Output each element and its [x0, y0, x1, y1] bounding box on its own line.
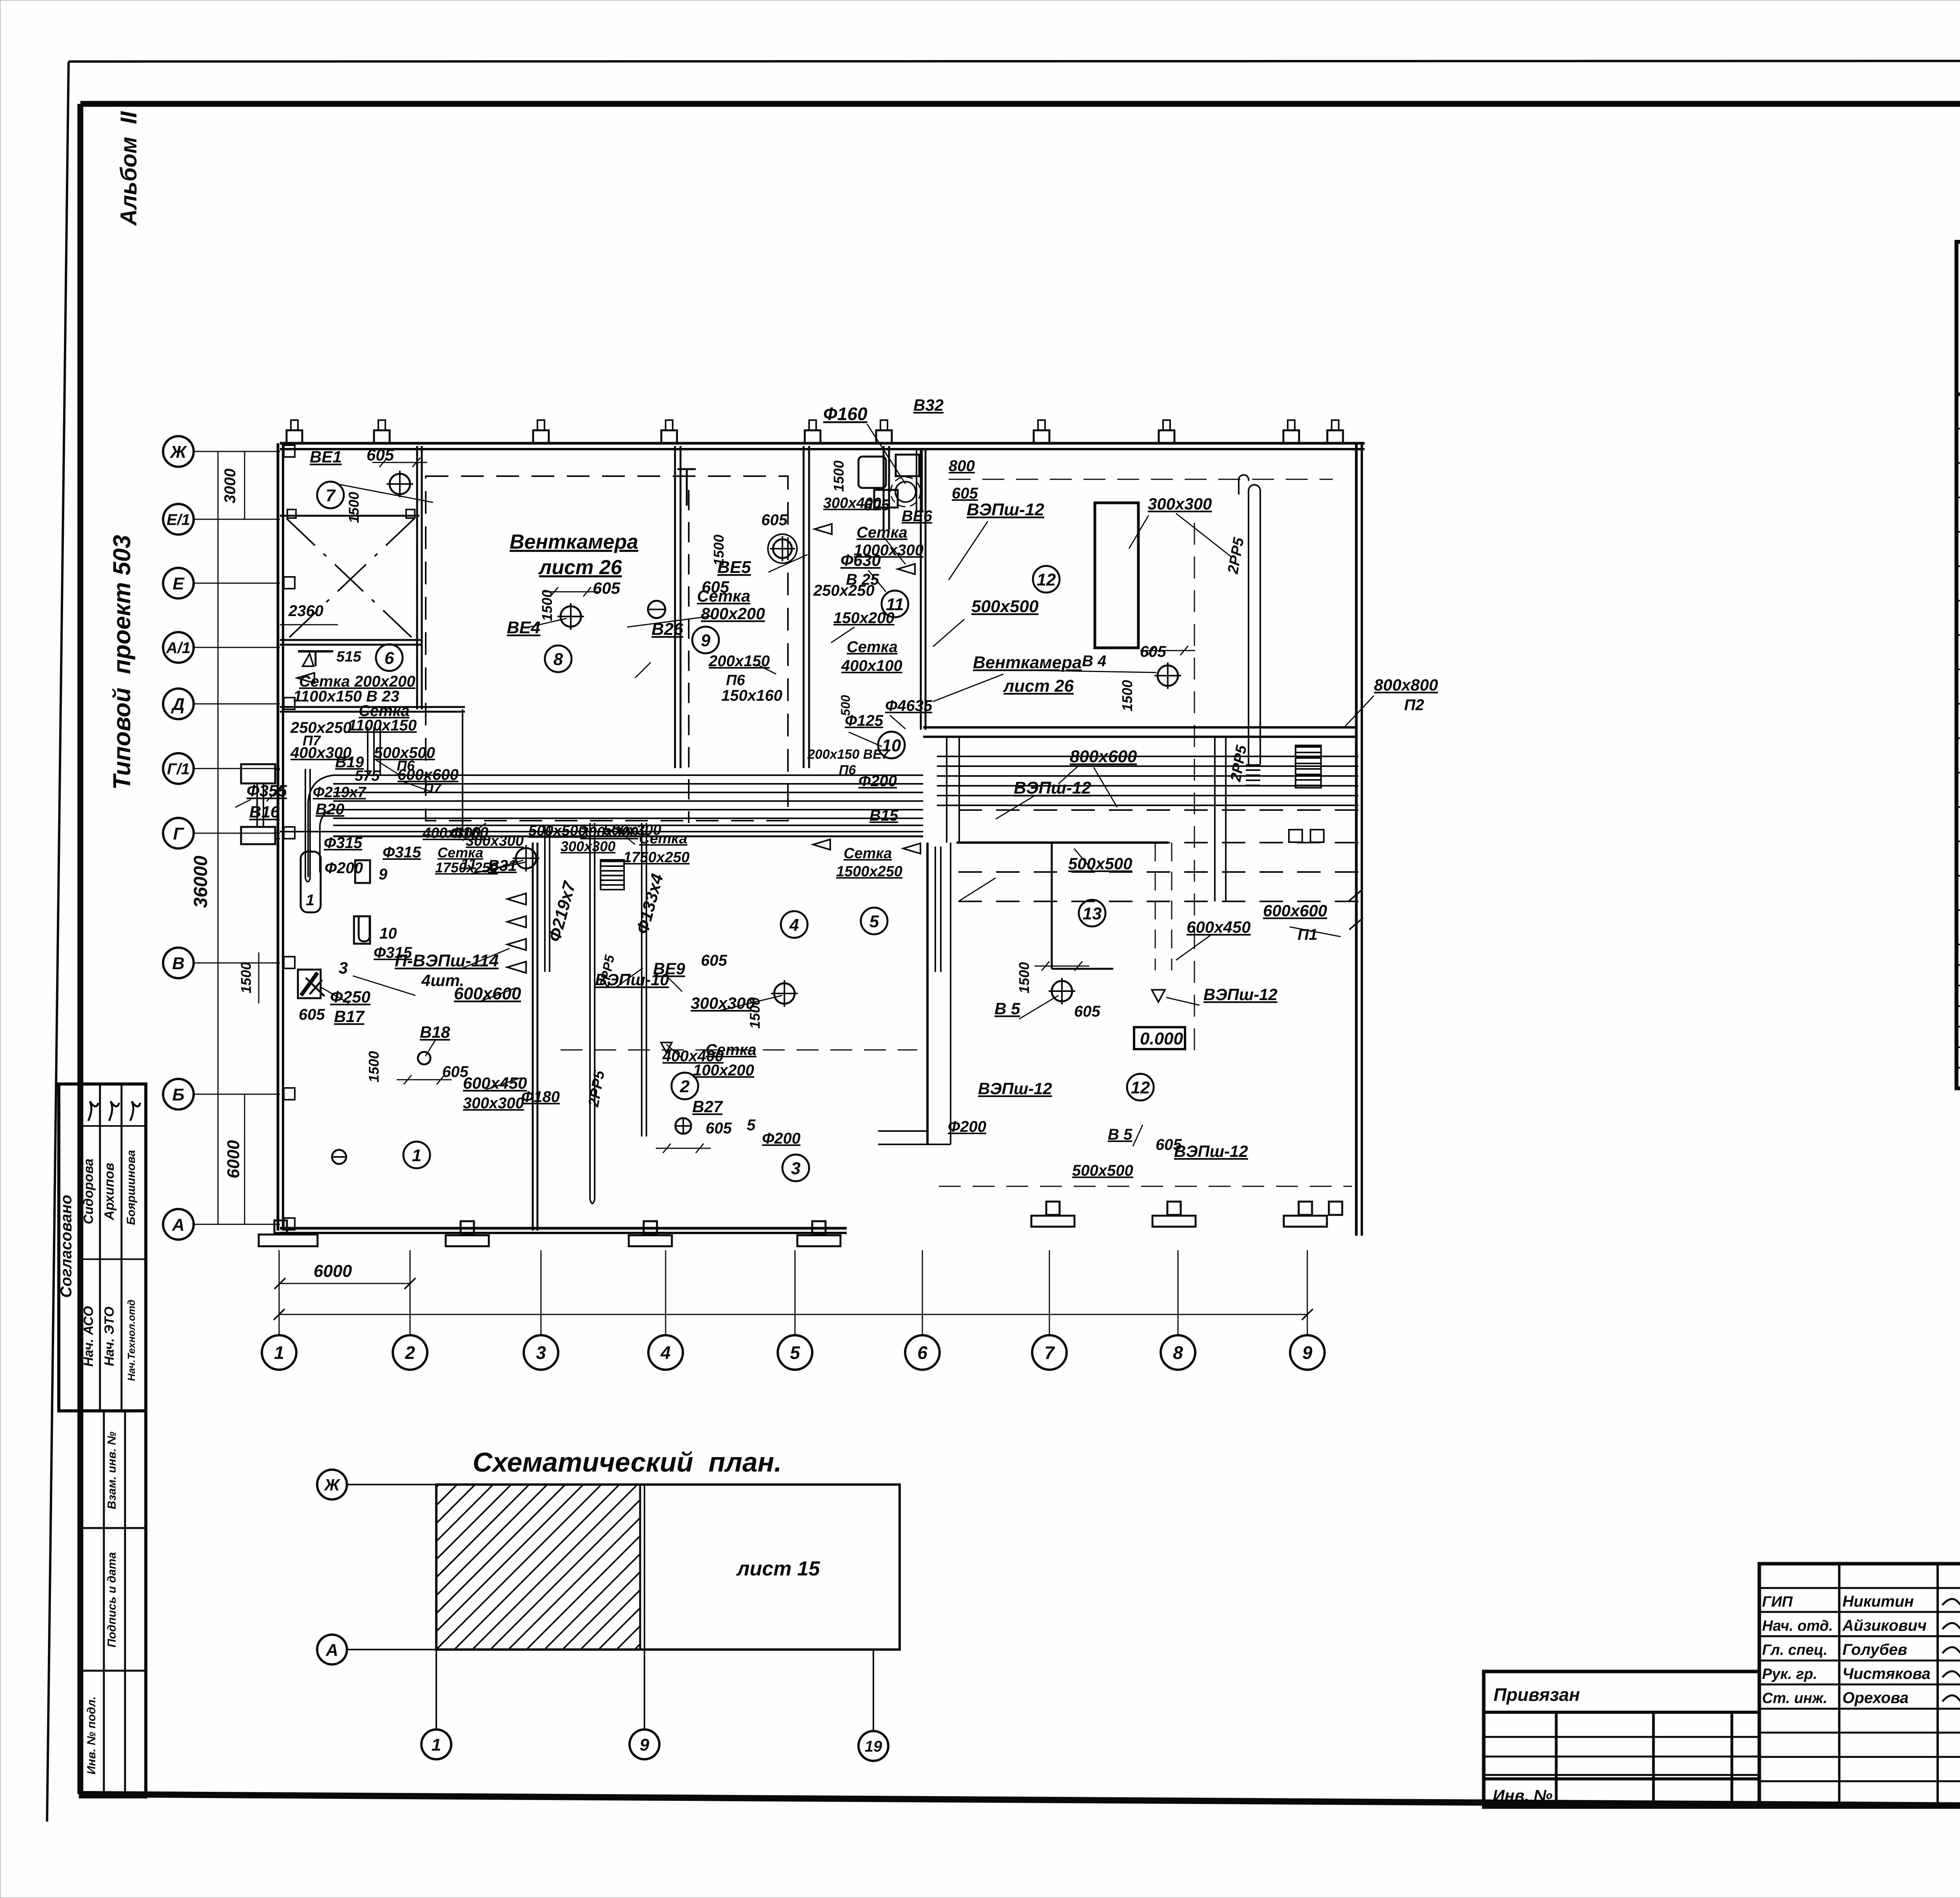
svg-text:Привязан: Привязан — [1494, 1684, 1580, 1705]
svg-text:6000: 6000 — [314, 1262, 352, 1281]
svg-text:300х300: 300х300 — [1148, 495, 1212, 513]
svg-text:Сетка: Сетка — [697, 587, 750, 605]
svg-text:Никитин: Никитин — [1842, 1593, 1914, 1610]
svg-text:100х200: 100х200 — [693, 1062, 754, 1079]
svg-text:Инв. № подл.: Инв. № подл. — [85, 1696, 98, 1774]
svg-text:Гл. спец.: Гл. спец. — [1762, 1642, 1828, 1659]
svg-text:12: 12 — [1131, 1078, 1150, 1097]
svg-text:6: 6 — [917, 1343, 927, 1363]
svg-text:Г: Г — [173, 824, 184, 843]
svg-text:Ф200: Ф200 — [948, 1118, 986, 1135]
svg-text:1: 1 — [306, 892, 314, 909]
svg-text:Ф125: Ф125 — [845, 712, 884, 729]
svg-text:П-ВЭПш-114: П-ВЭПш-114 — [395, 951, 499, 970]
svg-text:Д: Д — [171, 695, 185, 714]
svg-text:605: 605 — [299, 1006, 325, 1023]
svg-text:ВЭПш-12: ВЭПш-12 — [1014, 778, 1091, 798]
svg-text:3: 3 — [536, 1343, 546, 1363]
svg-text:В 5: В 5 — [1108, 1126, 1132, 1143]
svg-text:Сетка: Сетка — [706, 1041, 757, 1059]
svg-text:0.000: 0.000 — [1140, 1029, 1183, 1048]
svg-text:лист 26: лист 26 — [1003, 676, 1074, 696]
svg-text:1500: 1500 — [238, 962, 254, 993]
svg-text:Рук. гр.: Рук. гр. — [1762, 1666, 1817, 1682]
svg-text:Подпись и дата: Подпись и дата — [105, 1552, 118, 1647]
svg-text:300х300: 300х300 — [561, 838, 615, 854]
svg-text:5: 5 — [747, 1117, 756, 1134]
svg-text:П6: П6 — [839, 763, 856, 778]
svg-text:лист 15: лист 15 — [736, 1557, 820, 1580]
svg-text:Ж: Ж — [324, 1476, 341, 1494]
svg-text:лист 26: лист 26 — [538, 556, 622, 579]
svg-text:605: 605 — [761, 511, 788, 529]
svg-text:ВЭПш-12: ВЭПш-12 — [1203, 985, 1278, 1004]
svg-text:605: 605 — [1140, 643, 1166, 660]
svg-text:В27: В27 — [692, 1097, 723, 1116]
svg-text:ВЕ9: ВЕ9 — [653, 959, 685, 978]
svg-text:Нач. АСО: Нач. АСО — [81, 1306, 96, 1367]
svg-text:605: 605 — [701, 952, 727, 969]
svg-text:1500: 1500 — [1119, 680, 1135, 711]
svg-text:1500х250: 1500х250 — [836, 863, 902, 880]
svg-text:8: 8 — [554, 650, 563, 669]
svg-text:Айзикович: Айзикович — [1842, 1617, 1927, 1634]
svg-text:П6: П6 — [726, 672, 745, 689]
svg-text:800х600: 800х600 — [1070, 747, 1137, 766]
svg-text:ВЕ1: ВЕ1 — [310, 448, 342, 466]
svg-text:Ф160: Ф160 — [823, 404, 867, 424]
svg-text:9: 9 — [1302, 1343, 1312, 1363]
svg-text:605: 605 — [1156, 1136, 1182, 1153]
svg-text:7: 7 — [326, 486, 336, 505]
svg-text:Бояршинова: Бояршинова — [125, 1150, 138, 1225]
svg-text:Ф180: Ф180 — [521, 1088, 560, 1106]
svg-text:В17: В17 — [334, 1007, 365, 1026]
svg-text:Сетка: Сетка — [847, 638, 898, 656]
svg-text:Ф160: Ф160 — [450, 824, 488, 841]
svg-text:Ф355: Ф355 — [247, 781, 287, 800]
svg-text:6000: 6000 — [224, 1140, 243, 1178]
svg-text:Инв. №: Инв. № — [1493, 1786, 1552, 1805]
svg-text:Венткамера: Венткамера — [510, 531, 638, 553]
svg-text:9: 9 — [379, 866, 388, 883]
svg-text:Сетка: Сетка — [639, 830, 687, 847]
svg-text:Голубев: Голубев — [1842, 1641, 1907, 1659]
svg-text:В: В — [172, 954, 185, 973]
svg-text:Ф200: Ф200 — [858, 772, 897, 790]
svg-text:5: 5 — [790, 1343, 800, 1363]
svg-text:Схематический план.: Схематический план. — [473, 1447, 782, 1477]
svg-text:4: 4 — [660, 1343, 671, 1363]
svg-text:ГИП: ГИП — [1762, 1594, 1793, 1610]
svg-text:605: 605 — [706, 1120, 732, 1137]
svg-text:Е: Е — [172, 574, 185, 593]
svg-text:В 5: В 5 — [995, 999, 1020, 1018]
svg-text:250х250: 250х250 — [813, 582, 875, 599]
svg-text:А/1: А/1 — [166, 639, 191, 656]
svg-text:11: 11 — [461, 856, 477, 873]
svg-text:600х600: 600х600 — [454, 984, 521, 1003]
svg-text:200х150: 200х150 — [708, 653, 770, 670]
svg-text:В15: В15 — [869, 807, 898, 824]
svg-text:605: 605 — [367, 446, 394, 464]
svg-text:В32: В32 — [913, 396, 944, 414]
svg-text:1500: 1500 — [711, 535, 727, 566]
svg-text:Ф315: Ф315 — [324, 834, 363, 852]
svg-text:Нач.Технол.отд: Нач.Технол.отд — [125, 1300, 137, 1381]
svg-text:Нач. отд.: Нач. отд. — [1762, 1618, 1833, 1634]
svg-text:8: 8 — [1173, 1343, 1183, 1363]
svg-text:ВЭПш-12: ВЭПш-12 — [967, 500, 1044, 519]
svg-text:1500: 1500 — [346, 492, 362, 523]
svg-text:1500: 1500 — [831, 460, 847, 492]
svg-text:800х200: 800х200 — [701, 604, 765, 623]
svg-text:Ф250: Ф250 — [330, 988, 370, 1006]
svg-text:Взам. инв. №: Взам. инв. № — [105, 1432, 118, 1509]
svg-text:500х500: 500х500 — [1072, 1162, 1133, 1179]
svg-text:605: 605 — [864, 497, 890, 514]
svg-text:Ж: Ж — [170, 442, 187, 462]
svg-text:В18: В18 — [420, 1023, 450, 1041]
svg-text:Архипов: Архипов — [102, 1163, 117, 1220]
svg-text:Сидорова: Сидорова — [81, 1158, 96, 1224]
svg-text:3000: 3000 — [221, 469, 239, 504]
svg-text:2: 2 — [405, 1343, 415, 1363]
svg-text:605: 605 — [1074, 1003, 1100, 1020]
svg-text:ВЭПш-12: ВЭПш-12 — [978, 1079, 1052, 1098]
svg-text:А: А — [172, 1215, 185, 1235]
svg-text:1: 1 — [432, 1735, 441, 1755]
svg-text:В16: В16 — [249, 803, 280, 821]
svg-text:Ф200: Ф200 — [325, 859, 363, 877]
svg-text:Нач. ЭТО: Нач. ЭТО — [102, 1307, 117, 1366]
svg-text:575: 575 — [355, 768, 380, 784]
svg-text:Ст. инж.: Ст. инж. — [1762, 1690, 1828, 1707]
svg-text:Г/1: Г/1 — [167, 760, 190, 778]
svg-text:Орехова: Орехова — [1842, 1690, 1909, 1707]
svg-text:ВЭПш-12: ВЭПш-12 — [1174, 1142, 1248, 1160]
svg-text:Ф315: Ф315 — [383, 844, 421, 861]
svg-text:3: 3 — [791, 1159, 800, 1178]
svg-text:Е/1: Е/1 — [167, 511, 190, 528]
svg-text:5: 5 — [869, 912, 879, 931]
svg-text:600х450: 600х450 — [1187, 918, 1251, 936]
svg-text:500х500: 500х500 — [528, 823, 586, 839]
svg-text:1750х250: 1750х250 — [623, 849, 690, 866]
svg-text:150х200: 150х200 — [833, 609, 895, 627]
svg-text:500х500: 500х500 — [1068, 854, 1132, 873]
svg-text:800х800: 800х800 — [1374, 676, 1438, 694]
svg-text:Сетка: Сетка — [857, 524, 907, 541]
svg-text:36000: 36000 — [191, 856, 211, 908]
svg-text:1: 1 — [412, 1146, 421, 1165]
svg-text:250х250: 250х250 — [290, 719, 352, 736]
svg-text:А: А — [325, 1641, 338, 1660]
svg-text:4: 4 — [789, 915, 799, 935]
svg-text:1: 1 — [274, 1343, 284, 1363]
svg-text:515: 515 — [336, 649, 361, 665]
svg-text:200х150 ВЕ7: 200х150 ВЕ7 — [807, 747, 890, 762]
svg-text:Ф219х7: Ф219х7 — [313, 784, 367, 801]
svg-text:Альбом ІІ: Альбом ІІ — [116, 111, 142, 227]
svg-text:1500: 1500 — [1016, 962, 1032, 993]
svg-text:10: 10 — [379, 925, 397, 942]
svg-text:9: 9 — [701, 631, 711, 650]
svg-text:2360: 2360 — [288, 602, 323, 620]
svg-text:605: 605 — [952, 485, 978, 502]
svg-text:500х500: 500х500 — [971, 597, 1039, 616]
svg-text:1100х150: 1100х150 — [348, 717, 417, 734]
svg-text:Ф4635: Ф4635 — [885, 697, 933, 714]
svg-text:800: 800 — [949, 457, 975, 475]
svg-text:6: 6 — [385, 649, 394, 668]
svg-text:Типовой проект 503: Типовой проект 503 — [109, 535, 136, 790]
svg-text:7: 7 — [1044, 1343, 1055, 1363]
svg-text:Б: Б — [172, 1085, 184, 1104]
svg-text:400х100: 400х100 — [841, 657, 902, 674]
svg-text:600х450: 600х450 — [463, 1074, 527, 1092]
svg-text:605: 605 — [593, 579, 621, 597]
svg-text:600х600: 600х600 — [1263, 901, 1327, 920]
svg-text:300х300: 300х300 — [463, 1095, 524, 1112]
svg-text:Ф200: Ф200 — [762, 1130, 800, 1147]
svg-text:9: 9 — [640, 1735, 650, 1755]
svg-text:19: 19 — [865, 1738, 882, 1755]
svg-text:В 4: В 4 — [1082, 653, 1106, 670]
svg-text:П2: П2 — [1404, 696, 1424, 714]
svg-text:1500: 1500 — [366, 1051, 382, 1082]
svg-text:Венткамера: Венткамера — [973, 653, 1082, 672]
svg-text:В20: В20 — [316, 801, 344, 818]
svg-text:13: 13 — [1083, 904, 1102, 923]
svg-text:ВЕ6: ВЕ6 — [902, 508, 933, 525]
svg-text:П7: П7 — [423, 780, 442, 796]
svg-text:150х160: 150х160 — [721, 687, 782, 704]
svg-text:605: 605 — [442, 1063, 468, 1080]
svg-text:12: 12 — [1037, 570, 1056, 589]
svg-text:В26: В26 — [652, 620, 683, 639]
svg-text:Сетка: Сетка — [844, 845, 892, 862]
svg-text:ВЕ4: ВЕ4 — [507, 618, 541, 637]
svg-text:Согласовано: Согласовано — [58, 1195, 75, 1298]
svg-text:2: 2 — [680, 1077, 690, 1096]
svg-text:Чистякова: Чистякова — [1842, 1665, 1931, 1682]
svg-text:3: 3 — [339, 959, 348, 977]
